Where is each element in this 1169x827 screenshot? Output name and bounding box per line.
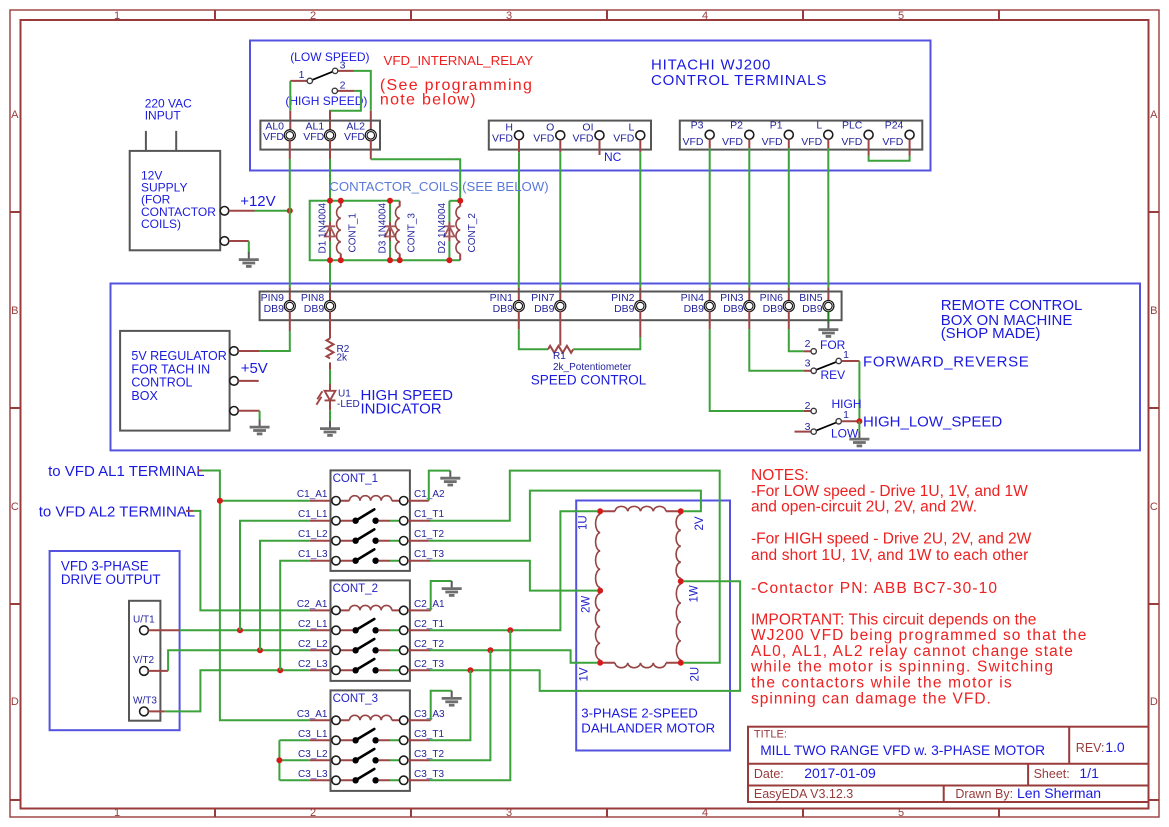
motor winding upper-right (2V-1W) <box>676 511 681 581</box>
P3..P24 terminal strip <box>680 120 923 150</box>
svg-text:VFD: VFD <box>841 136 862 148</box>
svg-text:-Contactor PN: ABB BC7-30-10: -Contactor PN: ABB BC7-30-10 <box>751 580 998 597</box>
svg-text:2: 2 <box>805 338 811 350</box>
DB9 terminal strip <box>260 292 842 321</box>
ground C1_A2 <box>440 471 460 485</box>
wire LOW contact stub <box>795 431 812 433</box>
wire W/T3 to C2_L3 <box>148 710 164 712</box>
svg-text:CONT_1: CONT_1 <box>348 213 359 253</box>
wire L to BIN5 <box>827 139 829 301</box>
svg-text:and open-circuit 2U, 2V, and 2: and open-circuit 2U, 2V, and 2W. <box>751 499 977 516</box>
svg-text:3: 3 <box>805 421 811 433</box>
svg-text:REV: REV <box>821 368 846 382</box>
svg-text:VFD: VFD <box>882 136 903 148</box>
HITACHI WJ200 control terminals enclosure box <box>250 41 931 171</box>
wire AL0 to PIN9 <box>289 140 291 301</box>
svg-text:INPUT: INPUT <box>145 108 182 122</box>
svg-text:CONT_1: CONT_1 <box>333 473 378 485</box>
svg-text:P3: P3 <box>691 120 704 132</box>
svg-text:note below): note below) <box>380 92 477 109</box>
svg-text:2k: 2k <box>337 352 349 363</box>
svg-text:VFD: VFD <box>801 136 822 148</box>
svg-text:4: 4 <box>702 807 708 819</box>
svg-text:CONT_3: CONT_3 <box>333 693 378 705</box>
title block <box>748 727 1149 802</box>
wire AL1 feed to contactor coils A1 <box>198 470 202 472</box>
wire relay pin1 to AL0 <box>289 81 291 111</box>
VFD 3-phase drive output enclosure <box>50 551 180 730</box>
svg-text:D3 1N4004: D3 1N4004 <box>378 202 389 253</box>
wire C1_T2 to motor 2V <box>408 540 429 542</box>
svg-text:VFD: VFD <box>683 136 704 148</box>
svg-text:1/1: 1/1 <box>1079 765 1099 781</box>
svg-text:VFD: VFD <box>533 132 554 144</box>
svg-text:-For HIGH speed - Drive 2U, 2V: -For HIGH speed - Drive 2U, 2V, and 2W <box>751 531 1032 548</box>
wire C2_T3 to motor 1W <box>408 669 430 671</box>
wire C3_L1/L2/L3 shorting link <box>279 740 310 780</box>
ground under BIN5 <box>827 311 829 323</box>
wire C1_L1 branch <box>240 521 310 631</box>
svg-text:+12V: +12V <box>240 193 275 210</box>
svg-text:C3_L3: C3_L3 <box>298 769 328 780</box>
svg-text:C3_L1: C3_L1 <box>298 729 328 740</box>
svg-text:TITLE:: TITLE: <box>754 729 787 741</box>
wire PIN3 to REV contact <box>748 311 750 329</box>
VFD internal relay SPDT switch <box>290 59 354 93</box>
contactor coils wire loop (top/left/bottom rails) <box>310 201 461 260</box>
svg-text:Len Sherman: Len Sherman <box>1017 785 1101 801</box>
svg-text:D: D <box>1150 696 1158 708</box>
svg-text:C2_A1: C2_A1 <box>297 599 328 610</box>
svg-text:C2_T3: C2_T3 <box>414 659 444 670</box>
svg-text:C3_A1: C3_A1 <box>297 709 328 720</box>
svg-text:VFD: VFD <box>613 132 634 144</box>
svg-text:PLC: PLC <box>842 120 863 132</box>
wire C3_A3 to ground <box>408 719 431 721</box>
wire C2_T1 branch to C3_T3 <box>430 630 511 780</box>
diode D1 1N4004 <box>318 202 336 253</box>
svg-text:DAHLANDER MOTOR: DAHLANDER MOTOR <box>581 721 715 736</box>
wire FOR/REV common to ground node <box>841 360 859 362</box>
motor winding upper-left (1U-2W) <box>596 511 601 590</box>
H/O/OI/L terminal strip <box>489 121 651 150</box>
diode D2 1N4004 <box>437 201 455 260</box>
svg-text:-For LOW speed - Drive 1U, 1V,: -For LOW speed - Drive 1U, 1V, and 1W <box>751 483 1028 500</box>
wire C1_T3 to motor 2W <box>408 560 430 562</box>
wire C2_T1 to motor 1U <box>408 629 430 631</box>
220 VAC input stub wires <box>145 131 147 152</box>
svg-text:COILS): COILS) <box>141 217 181 231</box>
svg-text:VFD: VFD <box>492 132 513 144</box>
svg-text:(SHOP MADE): (SHOP MADE) <box>941 325 1041 342</box>
svg-text:C2_A1: C2_A1 <box>414 599 445 610</box>
svg-text:C2_T2: C2_T2 <box>414 639 444 650</box>
wire D1 to bottom rail / PIN8 <box>329 241 331 287</box>
svg-text:VFD: VFD <box>573 132 594 144</box>
wire U/T1 to C2_L1 <box>148 629 179 631</box>
svg-text:C2_T1: C2_T1 <box>414 619 444 630</box>
wire H to PIN1 <box>518 140 520 301</box>
svg-text:FOR: FOR <box>820 338 846 352</box>
wire C2_T3 branch to C3_T1 <box>430 670 471 740</box>
junction +12V node <box>287 208 293 214</box>
svg-text:D: D <box>11 696 19 708</box>
svg-text:DB9: DB9 <box>763 303 784 315</box>
svg-text:C2_L3: C2_L3 <box>298 659 328 670</box>
svg-text:C2_L2: C2_L2 <box>298 639 328 650</box>
svg-text:2: 2 <box>340 80 346 92</box>
svg-text:1W: 1W <box>689 585 701 602</box>
wire R1 right to PIN2 <box>573 337 640 349</box>
wire 5V regulator output to PIN9 <box>238 350 259 352</box>
contact poles CONT_3 <box>340 740 390 780</box>
svg-text:DB9: DB9 <box>534 303 555 315</box>
svg-text:3: 3 <box>506 807 512 819</box>
switch HIGH_LOW_SPEED <box>805 397 862 441</box>
svg-text:2: 2 <box>310 807 316 819</box>
svg-text:3-PHASE 2-SPEED: 3-PHASE 2-SPEED <box>581 706 698 721</box>
svg-text:CONTACTOR_COILS (SEE BELOW): CONTACTOR_COILS (SEE BELOW) <box>329 179 548 194</box>
svg-text:while the motor is spinning. S: while the motor is spinning. Switching <box>750 659 1054 676</box>
motor winding bottom (1V-2U) <box>600 663 681 668</box>
wire PIN1 to R1 left <box>518 311 520 329</box>
contactor CONT_2 <box>297 580 445 681</box>
wire V/T2 to C2_L2 <box>148 670 168 672</box>
svg-text:A: A <box>1150 109 1158 121</box>
svg-text:DB9: DB9 <box>802 303 823 315</box>
svg-text:C1_T1: C1_T1 <box>414 509 444 520</box>
svg-text:VFD_INTERNAL_RELAY: VFD_INTERNAL_RELAY <box>384 53 534 68</box>
3-phase 2-speed Dahlander motor enclosure <box>576 501 730 751</box>
svg-text:VFD: VFD <box>344 131 365 143</box>
inductor coil CONT_1 <box>337 201 359 260</box>
svg-text:NOTES:: NOTES: <box>751 467 809 484</box>
wire PIN6 to FOR contact <box>788 311 790 329</box>
svg-text:C3_A3: C3_A3 <box>414 709 445 720</box>
contactor CONT_3 <box>297 690 445 791</box>
svg-text:CONT_2: CONT_2 <box>333 583 378 595</box>
svg-text:1: 1 <box>114 10 120 22</box>
wire C2_T2 to motor 1V <box>408 649 430 651</box>
wire C1_L3 branch <box>280 561 310 671</box>
svg-text:Drawn By:: Drawn By: <box>955 787 1013 801</box>
junction dots on coils box top rail <box>327 198 333 204</box>
svg-text:B: B <box>1150 305 1157 317</box>
wire AL2 to coils box (CONT_2 branch) <box>370 140 372 160</box>
wire PLC to P24 jumper <box>869 139 910 155</box>
svg-text:1.0: 1.0 <box>1105 739 1125 755</box>
svg-text:P2: P2 <box>730 120 743 132</box>
svg-text:and short 1U, 1V, and 1W to ea: and short 1U, 1V, and 1W to each other <box>751 547 1028 564</box>
potentiometer R1 2k <box>548 346 632 373</box>
svg-text:R1: R1 <box>553 351 566 362</box>
resistor R2 2k <box>327 311 350 370</box>
motor winding lower-right (1W-2U) <box>676 581 680 663</box>
svg-text:5V REGULATOR: 5V REGULATOR <box>131 349 226 363</box>
svg-text:C: C <box>11 501 19 513</box>
svg-text:2U: 2U <box>690 667 702 682</box>
wire P1 to PIN6 <box>788 139 790 301</box>
svg-text:U/T1: U/T1 <box>133 614 155 625</box>
motor winding lower-left (2W-1V) <box>595 591 600 663</box>
wire AL1 to coils box (D1 branch) <box>329 140 331 159</box>
svg-text:DB9: DB9 <box>264 303 285 315</box>
motor winding top (1U-2V) <box>600 506 681 511</box>
wire C1_A2 to ground <box>408 500 429 502</box>
svg-text:+5V: +5V <box>241 360 268 377</box>
ground 12V supply <box>239 252 259 266</box>
svg-text:CONTROL TERMINALS: CONTROL TERMINALS <box>651 72 827 89</box>
svg-text:C1_L2: C1_L2 <box>298 529 328 540</box>
svg-text:to VFD AL1 TERMINAL: to VFD AL1 TERMINAL <box>48 463 204 480</box>
wire PIN4 to HIGH contact <box>709 311 711 329</box>
inductor coil CONT_3 <box>395 201 417 260</box>
NC label under OI <box>599 140 601 155</box>
svg-text:to VFD AL2 TERMINAL: to VFD AL2 TERMINAL <box>39 503 195 520</box>
junction AL1 feed at C1_A1 <box>220 500 310 502</box>
svg-text:5: 5 <box>898 10 904 22</box>
svg-text:C1_T2: C1_T2 <box>414 529 444 540</box>
wire C1_L2 branch <box>260 541 310 651</box>
svg-text:HIGH: HIGH <box>832 397 862 411</box>
wire O to PIN7 <box>559 140 561 301</box>
svg-text:2017-01-09: 2017-01-09 <box>804 765 876 781</box>
svg-text:A: A <box>11 109 19 121</box>
wire 12V supply negative to ground <box>229 240 249 242</box>
VFD output terminal strip <box>129 601 160 721</box>
svg-text:VFD: VFD <box>263 131 284 143</box>
ground C3_A3 <box>442 691 462 705</box>
svg-text:AL0, AL1, AL2 relay cannot cha: AL0, AL1, AL2 relay cannot change state <box>751 643 1074 660</box>
svg-text:2k_Potentiometer: 2k_Potentiometer <box>553 362 632 373</box>
svg-text:D2 1N4004: D2 1N4004 <box>437 202 448 253</box>
svg-text:CONT_3: CONT_3 <box>407 213 418 253</box>
wire +5V stub <box>238 380 258 382</box>
svg-text:VFD: VFD <box>303 131 324 143</box>
svg-text:HIGH_LOW_SPEED: HIGH_LOW_SPEED <box>863 414 1002 431</box>
svg-text:the contactors while the motor: the contactors while the motor is <box>751 675 1013 692</box>
svg-text:2W: 2W <box>581 596 593 613</box>
svg-text:C3_T3: C3_T3 <box>414 769 444 780</box>
svg-text:C3_L2: C3_L2 <box>298 749 328 760</box>
contact poles CONT_2 <box>340 630 390 670</box>
svg-text:FOR TACH IN: FOR TACH IN <box>131 362 210 376</box>
svg-text:D1 1N4004: D1 1N4004 <box>318 202 329 253</box>
svg-text:INDICATOR: INDICATOR <box>361 401 442 418</box>
svg-text:DB9: DB9 <box>723 303 744 315</box>
svg-text:U1: U1 <box>338 389 351 400</box>
svg-text:P24: P24 <box>885 120 904 132</box>
svg-text:C3_T1: C3_T1 <box>414 729 444 740</box>
svg-text:DB9: DB9 <box>684 303 705 315</box>
svg-text:(LOW SPEED): (LOW SPEED) <box>290 50 369 64</box>
wire relay pin2 to AL1 <box>330 91 361 112</box>
svg-text:IMPORTANT: This circuit depend: IMPORTANT: This circuit depends on the <box>751 611 1037 628</box>
svg-text:DB9: DB9 <box>304 303 325 315</box>
wire P2 to PIN3 <box>748 139 750 301</box>
wire R2 to LED <box>329 370 331 384</box>
ground switch commons <box>858 421 860 431</box>
wire HIGH/LOW common to ground node <box>841 420 859 422</box>
svg-text:VFD: VFD <box>722 136 743 148</box>
svg-text:C1_L3: C1_L3 <box>298 549 328 560</box>
svg-text:DB9: DB9 <box>493 303 514 315</box>
svg-text:(HIGH SPEED): (HIGH SPEED) <box>285 94 367 108</box>
svg-text:3: 3 <box>805 358 811 370</box>
svg-text:W/T3: W/T3 <box>133 695 157 706</box>
wire +12V from 12V supply to AL0 line <box>229 210 255 212</box>
svg-text:FORWARD_REVERSE: FORWARD_REVERSE <box>863 353 1029 370</box>
junction switch common ground node <box>856 418 862 424</box>
svg-text:2V: 2V <box>694 516 706 530</box>
svg-text:5: 5 <box>898 807 904 819</box>
wire PIN7 to R1 wiper <box>559 311 561 346</box>
remote control box enclosure <box>111 284 1141 451</box>
svg-text:2: 2 <box>805 400 811 412</box>
svg-text:Date:: Date: <box>754 767 784 781</box>
AL0/AL1/AL2 terminal strip <box>260 120 380 149</box>
svg-text:VFD: VFD <box>762 136 783 148</box>
svg-text:-LED: -LED <box>337 399 360 410</box>
ground LED <box>320 421 340 435</box>
svg-text:P1: P1 <box>770 120 783 132</box>
wire L to PIN2 <box>639 140 641 301</box>
svg-text:4: 4 <box>702 10 708 22</box>
svg-text:1U: 1U <box>578 515 590 530</box>
svg-text:C1_L1: C1_L1 <box>298 509 328 520</box>
svg-text:NC: NC <box>604 150 622 164</box>
contact poles CONT_1 <box>340 521 390 561</box>
svg-text:V/T2: V/T2 <box>133 655 155 666</box>
wire AL2 feed to C2_A1 <box>186 510 193 512</box>
svg-text:B: B <box>11 305 18 317</box>
NOTES red text block <box>750 467 1087 707</box>
svg-text:MILL TWO RANGE VFD w. 3-PHASE: MILL TWO RANGE VFD w. 3-PHASE MOTOR <box>760 743 1045 758</box>
wire relay pin3 to AL2 <box>354 71 371 111</box>
svg-text:CONTROL: CONTROL <box>131 376 192 390</box>
svg-text:WJ200 VFD being programmed so: WJ200 VFD being programmed so that the <box>751 627 1087 644</box>
svg-text:1: 1 <box>114 807 120 819</box>
svg-text:1: 1 <box>299 69 305 81</box>
ground 5V regulator <box>250 420 270 434</box>
svg-text:Sheet:: Sheet: <box>1034 767 1070 781</box>
ground C2_A1 <box>442 581 462 595</box>
wire C2_T2 branch to C3_T2 <box>430 650 491 760</box>
svg-text:C3_T2: C3_T2 <box>414 749 444 760</box>
wire LED to ground <box>329 410 331 421</box>
svg-text:CONT_2: CONT_2 <box>467 213 478 253</box>
svg-text:DRIVE OUTPUT: DRIVE OUTPUT <box>61 572 161 587</box>
svg-text:2: 2 <box>310 10 316 22</box>
svg-text:1V: 1V <box>579 667 591 681</box>
svg-text:C: C <box>1150 501 1158 513</box>
svg-text:C1_A1: C1_A1 <box>297 489 328 500</box>
svg-text:C1_T3: C1_T3 <box>414 549 444 560</box>
wire 5V regulator to ground <box>238 410 259 412</box>
svg-text:spinning can damage the VFD.: spinning can damage the VFD. <box>751 690 992 707</box>
contactor CONT_1 <box>297 470 445 571</box>
svg-text:C2_L1: C2_L1 <box>298 619 328 630</box>
wire C2_A1 to ground <box>408 609 431 611</box>
junction dots on coils box bottom rail <box>327 257 333 263</box>
svg-text:1: 1 <box>843 409 849 421</box>
svg-text:REV:: REV: <box>1076 741 1105 755</box>
svg-text:DB9: DB9 <box>614 303 635 315</box>
wire P3 to PIN4 <box>709 139 711 301</box>
LED U1 high speed indicator <box>316 384 359 410</box>
svg-text:BOX: BOX <box>131 389 158 403</box>
svg-text:3: 3 <box>340 59 346 71</box>
inductor coil CONT_2 <box>456 201 478 260</box>
12V supply box <box>130 151 229 250</box>
svg-text:L: L <box>816 120 822 132</box>
motor node dots <box>597 508 603 514</box>
diode D3 1N4004 <box>378 201 396 260</box>
svg-text:SPEED CONTROL: SPEED CONTROL <box>531 373 647 388</box>
svg-text:EasyEDA V3.12.3: EasyEDA V3.12.3 <box>754 787 853 801</box>
svg-text:3: 3 <box>506 10 512 22</box>
5V regulator box <box>120 331 238 431</box>
switch FORWARD_REVERSE <box>805 338 850 382</box>
wire C1_T1 to motor 2U <box>408 520 430 522</box>
